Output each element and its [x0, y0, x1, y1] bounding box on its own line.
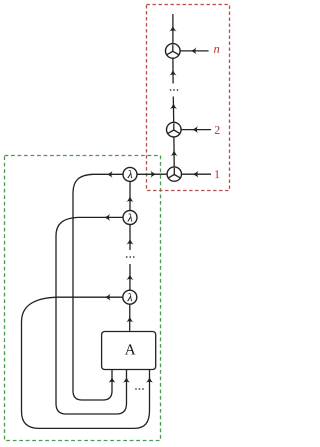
- dots between A inputs: [135, 388, 144, 390]
- wire: top lambda to fork circle 1: [137, 173, 167, 175]
- wire: input n from right: [180, 50, 209, 52]
- lambda node bottom: [123, 290, 137, 304]
- wire: A output up to bottom lambda: [129, 304, 131, 331]
- dots between lambda middle and bottom: [126, 256, 135, 258]
- label n: [214, 47, 219, 53]
- arrow: inner loop pointing left: [107, 171, 113, 178]
- arrow: middle loop pointing left: [104, 214, 110, 221]
- fork node n: [166, 44, 181, 59]
- arrow: second lambda up to top lambda: [126, 196, 133, 202]
- arrow: outer loop pointing left: [105, 294, 111, 301]
- wire: inner feedback loop, top lambda to A input 1: [73, 174, 123, 400]
- green dashed box (left subsystem): [5, 156, 161, 441]
- arrow: A input 2 up: [123, 377, 130, 383]
- arrow: input 2 pointing left: [192, 126, 198, 133]
- wire: dots up to second lambda: [129, 225, 131, 250]
- wire: circle 2 to dots: [172, 97, 174, 123]
- arrow: circle1 up to circle2: [170, 150, 177, 156]
- arrow: dots up to second lambda: [126, 239, 133, 245]
- wire: circle 1 to circle 2: [173, 137, 175, 167]
- arrow: lambda to fork pointing right: [150, 171, 156, 178]
- fork node 2: [167, 122, 182, 137]
- arrow: up to circle n: [169, 70, 176, 76]
- wire: input 2 from right: [181, 129, 211, 131]
- fork node 1: [167, 167, 181, 181]
- lambda node top: [123, 167, 137, 181]
- wire: dots to circle n: [172, 58, 174, 83]
- box A: [102, 332, 156, 370]
- arrow: bottom lambda up to dots: [126, 274, 133, 280]
- dots between circle 2 and circle n: [170, 89, 179, 91]
- arrow: input n pointing left: [190, 47, 196, 54]
- arrow: A input 1 up: [108, 377, 115, 383]
- arrow: up from circle 2 to dots: [170, 103, 177, 109]
- arrow: A up to bottom lambda: [126, 316, 133, 322]
- wire: output of top fork node going up out of red box: [172, 14, 174, 44]
- red dashed box (right subsystem): [147, 5, 230, 191]
- lambda node middle: [123, 211, 137, 225]
- wire: input 1 from right: [182, 173, 212, 175]
- label 2: [215, 126, 220, 134]
- wire: outer feedback loop, bottom lambda to A input 3: [22, 297, 150, 428]
- wire: middle feedback loop, second lambda to A input 2: [56, 217, 127, 414]
- wire: second lambda up to top lambda: [129, 182, 131, 211]
- label 1: [215, 170, 219, 178]
- arrow: A input 3 up: [146, 377, 153, 383]
- arrow: top output up: [169, 26, 176, 32]
- arrow: input 1 pointing left: [192, 171, 198, 178]
- wire: bottom lambda up to dots: [129, 264, 131, 290]
